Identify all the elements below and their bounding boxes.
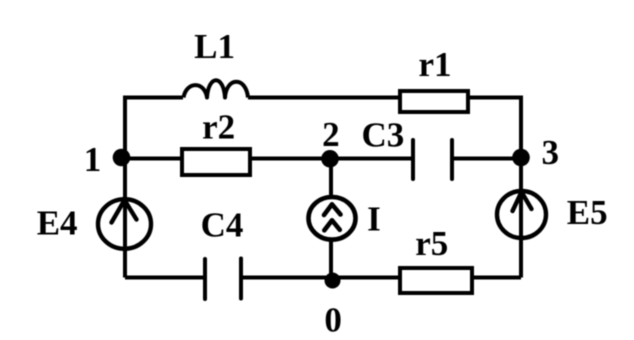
- wire r2 to node 2: [250, 157, 331, 161]
- wire node 2 down to current source: [329, 159, 333, 199]
- wire node 1 to r2: [125, 157, 182, 161]
- svg-text:3: 3: [542, 133, 560, 172]
- svg-text:0: 0: [324, 301, 342, 340]
- svg-text:I: I: [367, 199, 381, 238]
- svg-text:1: 1: [84, 140, 102, 179]
- node 0 junction dot: [325, 273, 341, 289]
- wire L1 to r1: [248, 96, 400, 100]
- svg-text:C4: C4: [201, 206, 244, 245]
- wire C3 to node 3: [452, 157, 521, 161]
- wire C4 to node 0: [241, 276, 331, 280]
- wire node 1 down through E4 to bottom-left corner: [123, 159, 127, 278]
- svg-text:r5: r5: [415, 224, 448, 263]
- current source I: [309, 197, 356, 240]
- node 2 junction dot: [321, 150, 339, 168]
- capacitor C4: [205, 259, 241, 300]
- svg-text:C3: C3: [362, 116, 405, 155]
- resistor R5: [400, 268, 472, 293]
- resistor R2: [182, 149, 250, 175]
- svg-text:L1: L1: [194, 27, 235, 66]
- svg-text:r1: r1: [419, 45, 452, 84]
- voltage source E5: [497, 191, 546, 238]
- wire current source to node 0: [329, 239, 333, 278]
- node 3 junction dot: [512, 149, 530, 167]
- capacitor C3: [413, 140, 452, 179]
- resistor R1: [400, 91, 468, 112]
- svg-text:r2: r2: [202, 107, 235, 146]
- wire node 0 to r5: [331, 276, 400, 280]
- wire node 3 down through E5 to bottom-right corner: [519, 159, 523, 278]
- node 1 junction dot: [113, 149, 131, 167]
- wire r1 to top-right corner down to node 3: [468, 98, 521, 159]
- wire top-left corner: node 1 up and right to L1: [125, 98, 183, 159]
- svg-text:2: 2: [322, 115, 340, 154]
- svg-text:E5: E5: [567, 193, 608, 232]
- voltage source E4: [98, 199, 151, 249]
- wire bottom-left corner to C4: [125, 276, 205, 280]
- inductor L1: [184, 80, 249, 97]
- wire node 2 to C3: [331, 157, 413, 161]
- wire r5 to bottom-right corner: [472, 276, 521, 280]
- svg-text:E4: E4: [37, 203, 78, 242]
